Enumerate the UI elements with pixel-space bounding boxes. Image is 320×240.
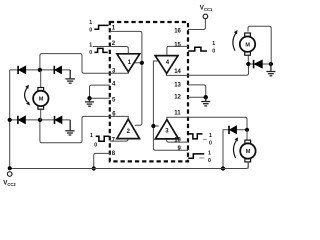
wire motor1 top lead [40,70,42,88]
motor M1 body [33,91,48,106]
wire pin8 external to VCC2 rail [94,153,110,168]
wire pin10 input to buffer3 [167,139,188,142]
node junction pin8 riser on VCC2 rail [92,166,96,170]
VCC2 terminal circle [7,172,12,177]
node motor2 bottom junction [246,62,250,66]
node junction motor1 top on diode rail [38,68,42,72]
wire EN12 vertical down to buffer2 enable stub [135,63,142,125]
ground pins 12-13 [201,97,210,106]
node ground junction top-right [269,62,273,66]
diode D1 top-left [18,66,26,74]
wire motor1 bottom lead [40,109,42,120]
motor M3 bottom-right rotation arrow [233,137,238,158]
motor M1 left rotation arrow double-headed [25,85,30,106]
svg-text:M: M [39,97,44,103]
ground pins 4-5 [85,98,94,106]
svg-text:11: 11 [174,111,181,117]
svg-text:1: 1 [208,151,211,157]
svg-text:0: 0 [212,48,215,54]
node junction EN34 at buffer3 [151,124,155,128]
svg-text:0: 0 [209,141,212,147]
wire pin14 output from buffer4 apex [167,73,189,75]
op-amp buffer 3 [155,120,178,139]
wire pin7 input to buffer2 [110,139,128,142]
svg-text:0: 0 [94,143,97,149]
svg-text:0: 0 [89,28,92,34]
motor M3 top terminal [245,140,251,143]
input waveform pin9 step [188,154,204,158]
wire buffer1 enable stub [134,62,142,64]
node junction diode rail and motor3 top [245,128,249,132]
motor M1 bottom terminal [38,106,44,109]
svg-text:1: 1 [90,133,93,139]
node ground junction pins 12-13 [204,95,208,99]
wire pin11 external to motor3 top [188,117,247,130]
wire VCC2 left rail vertical [9,70,11,169]
wire top-right motor bottom to node [247,55,249,64]
diode D2 bottom-left [18,116,26,124]
svg-text:M: M [245,42,250,48]
wire VCC1 to pin16 [188,19,205,30]
wire pin15 input to buffer4 [167,46,188,55]
wire motor3 bottom lead to VCC2 rail [247,162,249,169]
op-amp buffer 4 [155,56,178,74]
motor M3 bottom terminal [245,159,251,162]
wire pin9 enable internal to EN34 vertical [153,61,188,150]
svg-text:0: 0 [89,50,92,56]
VCC2 terminal junction dot [8,166,12,170]
wire pin13 external [188,85,206,97]
wire pin6 output from buffer2 apex [110,116,128,119]
input waveform pin2 pulse [94,48,107,52]
diode D1b top-left second [54,66,61,74]
wire motor3 top lead [246,130,248,140]
wire VCC2 bottom rail [10,162,249,169]
IC U1 dashed package outline [110,22,188,161]
input waveform pin10 inverted pulse [188,134,202,139]
node junction EN12 at buffer1 [140,61,144,65]
node junction diode riser on VCC2 rail [221,166,225,170]
diode D2b bottom-left second [55,116,63,124]
ground bottom-left rail [65,120,74,135]
op-amp buffer 2 [117,119,140,138]
input waveform pin1 step [94,25,108,29]
wire diode rail bottom-left [10,119,70,121]
wire top-right motor top loop [248,26,271,64]
motor M2 top-right rotation arrow [233,30,238,50]
svg-text:1: 1 [89,20,92,26]
wire pin11 output from buffer3 apex [167,117,188,119]
ground top-right [266,64,275,76]
wire pin1 enable internal to EN vertical [110,31,142,62]
wire pin3 external route to motor1 top node [40,54,110,74]
wire diode rail bottom-right with VCC2 riser [223,130,247,169]
svg-text:0: 0 [208,158,211,164]
motor M1 top terminal [38,88,44,91]
svg-text:15: 15 [174,42,181,48]
svg-text:1: 1 [89,43,92,49]
wire pin2 input to buffer1 [93,47,129,54]
motor M2 bottom terminal [245,52,251,55]
motor M2 body [240,37,255,52]
input waveform pin15 pulse [188,47,207,51]
motor M3 body [240,143,255,158]
ground top-left rail [65,70,75,83]
input waveform pin7 inverted pulse [96,136,110,141]
wire pin5 external to ground [90,97,110,99]
svg-text:16: 16 [174,28,181,34]
VCC1 terminal circle [203,14,208,19]
wire pin4 external to ground [90,85,110,98]
wire diode rail top-left [10,69,70,71]
node junction motor1 bottom on diode rail [38,118,42,122]
svg-text:12: 12 [174,95,181,101]
diode D3 flyback top-right [254,60,263,68]
svg-text:M: M [246,149,251,155]
diode D4 flyback bottom-right [229,126,237,134]
wire pin14 external to motor node [188,64,249,75]
wire pin6 external route to motor1 bottom node [40,116,110,142]
svg-text:10: 10 [174,138,181,144]
svg-text:13: 13 [174,83,181,89]
wire pin3 output from buffer1 apex [110,71,129,73]
svg-text:14: 14 [174,69,181,75]
wire node to ground rail top-right [248,63,271,65]
wire buffer3 enable stub [153,125,159,127]
svg-text:1: 1 [209,133,212,139]
node ground junction pins 4-5 [87,96,91,100]
motor M2 top terminal [245,33,251,36]
svg-text:1: 1 [212,41,215,47]
wire pin12 external [188,96,206,98]
node junction VCC2 rail and bottom diode rail [8,118,12,122]
op-amp buffer 1 [117,54,140,72]
